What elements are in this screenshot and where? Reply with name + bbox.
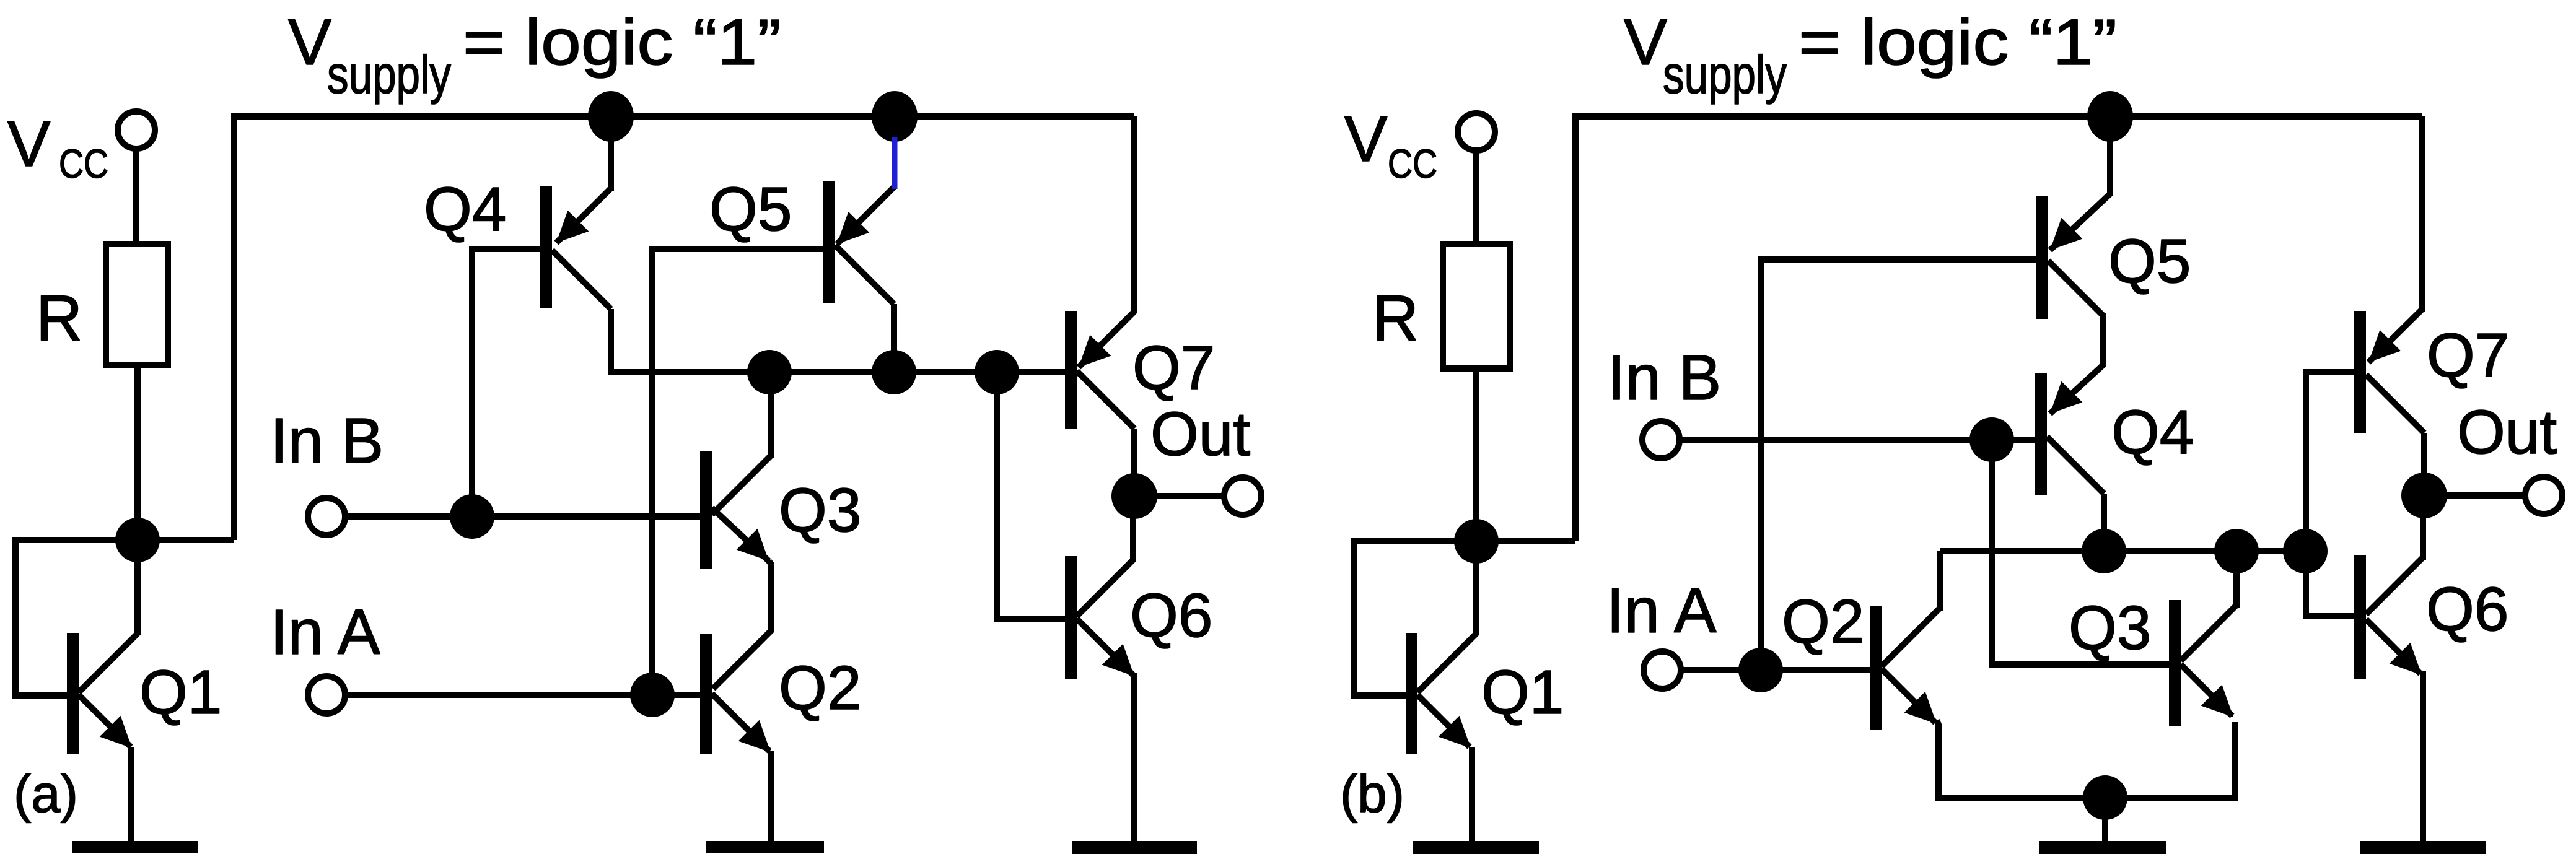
wire Q2 emitter to common node (b): [1937, 720, 2235, 798]
svg-text:R: R: [36, 282, 82, 354]
node In B - Q3 base (b): [1969, 417, 2014, 462]
wire R bottom lead (a): [134, 365, 141, 540]
wire Q2 collector (b): [1937, 551, 1943, 611]
node In A - Q5 base (a): [630, 673, 675, 717]
wire Q4 collector drop (a): [608, 309, 614, 375]
terminal In A (a): [308, 676, 345, 713]
wire left supply rail (a): [231, 116, 237, 540]
svg-text:Q3: Q3: [2069, 593, 2151, 663]
transistor Q2 (a): [700, 634, 771, 754]
wire top supply rail (a): [231, 113, 1134, 120]
terminal Out (b): [2525, 477, 2562, 514]
terminal In B (a): [308, 498, 345, 535]
transistor Q3 (b): [2169, 600, 2236, 726]
node supply-Q4 (a): [588, 91, 634, 142]
svg-text:V: V: [1624, 6, 1667, 79]
transistor Q4 (a): [540, 186, 611, 309]
svg-text:In B: In B: [1608, 342, 1721, 413]
transistor Q6 (a): [1065, 556, 1134, 679]
wire Q1 emitter to ground (a): [128, 747, 134, 844]
ground Q1 (a): [72, 841, 198, 853]
svg-text:(b): (b): [1340, 765, 1404, 824]
node Q4 collector junction (b): [2082, 529, 2126, 573]
terminal VCC (b): [1458, 113, 1495, 150]
wire top supply rail (b): [1572, 113, 2422, 120]
wire base bus (a): [611, 369, 1071, 375]
svg-text:Out: Out: [2457, 398, 2557, 467]
wire Q1 collector (a): [134, 540, 141, 635]
wire Q2 emitter to ground (a): [768, 751, 774, 844]
svg-text:V: V: [288, 6, 331, 79]
wire Q7 collector drop (b): [2421, 433, 2427, 495]
svg-text:In A: In A: [1606, 575, 1717, 646]
svg-text:Out: Out: [1150, 399, 1250, 469]
wire Q7 collector drop (a): [1131, 429, 1137, 496]
svg-text:= logic “1”: = logic “1”: [1798, 6, 2117, 79]
svg-text:R: R: [1372, 282, 1419, 354]
svg-text:Q6: Q6: [2426, 575, 2508, 644]
transistor Q5 (b): [2036, 194, 2110, 319]
ground Q2 (a): [706, 841, 824, 853]
wire In A to Q2 base (b): [1681, 667, 1870, 673]
svg-text:= logic “1”: = logic “1”: [463, 6, 781, 79]
wire Q7 base (b): [2306, 372, 2354, 616]
wire Q6 collector (b): [2420, 495, 2426, 560]
svg-text:CC: CC: [1388, 141, 1437, 186]
svg-text:V: V: [1344, 103, 1387, 175]
svg-text:Q1: Q1: [1481, 658, 1564, 727]
node Q3 collector junction (a): [747, 350, 792, 394]
wire Q1 collector (b): [1473, 541, 1479, 635]
wire In B to Q4 base (b): [1681, 437, 2035, 443]
ground common (b): [2039, 841, 2166, 854]
node Q3 collector junction (b): [2214, 529, 2259, 573]
svg-text:Q4: Q4: [424, 175, 506, 244]
terminal Out (a): [1224, 477, 1261, 515]
node In B - Q4 base (a): [450, 494, 494, 539]
wire Q3 base drop (b): [1992, 440, 2169, 664]
wire base feedback left (a): [15, 540, 138, 695]
svg-text:V: V: [7, 108, 50, 180]
wire Out (b): [2424, 492, 2526, 499]
svg-text:Q7: Q7: [2427, 321, 2509, 390]
wire Q6 emitter to ground (b): [2420, 671, 2426, 844]
transistor Q3 (a): [700, 451, 771, 569]
transistor Q1 (a): [67, 633, 138, 754]
wire Q4 base (a): [472, 249, 540, 516]
ground Q6 (b): [2360, 841, 2486, 854]
svg-text:Q1: Q1: [139, 658, 222, 727]
node R-Q1 junction (a): [115, 518, 160, 562]
wire right supply drop (a): [1131, 116, 1137, 313]
wire Q3 collector (a): [768, 372, 774, 458]
resistor R (b): [1443, 244, 1510, 368]
wire Q1 emitter to ground (b): [1469, 747, 1475, 844]
wire Q6 emitter to ground (a): [1131, 673, 1137, 844]
wire Q5 base (a): [652, 249, 823, 695]
resistor R (a): [106, 244, 168, 365]
node Q6 base junction (a): [975, 350, 1019, 394]
transistor Q6 (b): [2354, 555, 2423, 679]
wire In A to Q2 base (a): [345, 692, 700, 698]
wire base feedback left (b): [1354, 541, 1476, 695]
wire Q5 collector to Q4 emitter (b): [2050, 313, 2103, 414]
svg-text:(a): (a): [14, 765, 78, 824]
node Q5 collector junction (a): [872, 350, 916, 394]
node supply-Q5 (a): [872, 91, 918, 142]
wire collector bus (b): [1940, 548, 2305, 554]
svg-text:supply: supply: [1663, 45, 1787, 105]
ground Q1 (b): [1413, 841, 1539, 854]
wire Q6 collector (a): [1130, 496, 1136, 562]
wire Q3 collector (b): [2233, 551, 2240, 608]
svg-text:Q4: Q4: [2111, 398, 2194, 467]
svg-text:Q3: Q3: [779, 476, 861, 545]
transistor Q4 (b): [2035, 373, 2104, 495]
svg-text:In B: In B: [270, 405, 383, 476]
transistor Q2 (b): [1870, 606, 1940, 730]
wire ground stub (b): [2102, 798, 2108, 842]
node In A - Q5 base (b): [1738, 648, 1783, 692]
svg-text:supply: supply: [327, 45, 451, 105]
wire node to left rail (a): [138, 537, 234, 543]
svg-text:Q5: Q5: [709, 175, 792, 244]
svg-text:Q6: Q6: [1130, 581, 1212, 650]
svg-text:Q5: Q5: [2108, 227, 2191, 296]
wire In B to Q3 base (a): [345, 513, 700, 520]
transistor Q7 (b): [2354, 309, 2424, 434]
node supply-Q5 (b): [2087, 91, 2133, 142]
svg-text:In A: In A: [270, 596, 380, 668]
transistor Q5 (a): [823, 181, 895, 304]
transistor Q7 (a): [1065, 311, 1134, 429]
wire Q6 base (a): [997, 372, 1065, 619]
wire Q3 emitter to Q2 collector (a): [713, 561, 771, 689]
node Out junction (b): [2401, 473, 2447, 518]
wire node to left rail (b): [1476, 538, 1575, 544]
wire R bottom lead (b): [1473, 368, 1479, 541]
terminal In B (b): [1642, 421, 1680, 458]
wire Q5 base (b): [1761, 259, 2036, 670]
node Out junction (a): [1111, 473, 1157, 519]
svg-text:Q2: Q2: [779, 653, 861, 723]
svg-text:Q2: Q2: [1782, 587, 1864, 656]
wire left supply rail (b): [1572, 116, 1579, 541]
svg-text:Q7: Q7: [1132, 333, 1215, 403]
transistor Q1 (b): [1406, 633, 1476, 754]
node Q7 base junction (b): [2283, 529, 2328, 573]
svg-text:CC: CC: [59, 141, 108, 186]
wire Q4 collector drop (b): [2101, 494, 2107, 551]
terminal VCC (a): [118, 111, 155, 149]
wire Q5 emitter blue segment (a): [892, 137, 898, 189]
terminal In A (b): [1644, 651, 1681, 689]
wire Q5 emitter from supply (b): [2107, 116, 2113, 196]
wire right supply drop (b): [2419, 116, 2425, 312]
wire Out (a): [1134, 493, 1225, 499]
node common emitter (b): [2083, 775, 2127, 820]
wire Q4 emitter from supply (a): [608, 116, 614, 191]
wire Q5 collector drop (a): [891, 304, 897, 372]
ground Q6 (a): [1072, 841, 1197, 854]
node R-Q1 junction (b): [1454, 519, 1499, 564]
